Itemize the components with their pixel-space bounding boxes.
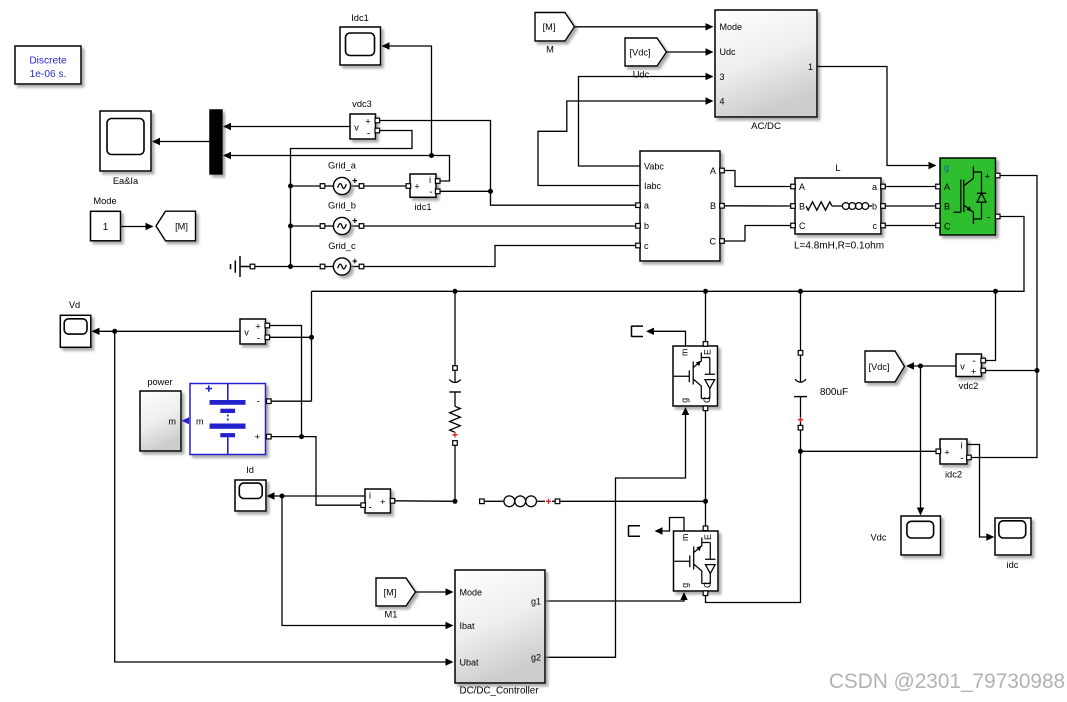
svg-text:800uF: 800uF — [820, 387, 848, 398]
svg-text:v: v — [244, 328, 249, 338]
svg-text:m: m — [168, 417, 176, 427]
svg-text:Ubat: Ubat — [460, 657, 480, 667]
svg-text:E: E — [703, 534, 713, 540]
svg-text:idc: idc — [1007, 560, 1019, 570]
svg-text:Grid_b: Grid_b — [328, 201, 356, 211]
svg-text:v: v — [960, 362, 965, 372]
svg-text:[M]: [M] — [543, 22, 556, 32]
svg-text:3: 3 — [720, 72, 725, 82]
svg-text:Mode: Mode — [460, 587, 483, 597]
svg-text:-: - — [429, 187, 432, 198]
svg-text:-: - — [369, 503, 372, 514]
svg-text:B: B — [710, 201, 716, 211]
svg-text:g1: g1 — [531, 596, 541, 606]
svg-text:[Vdc]: [Vdc] — [869, 362, 890, 372]
svg-text:-: - — [257, 397, 260, 408]
svg-text:vdc2: vdc2 — [959, 381, 979, 391]
svg-text:idc2: idc2 — [945, 470, 962, 480]
svg-text:Vabc: Vabc — [644, 162, 664, 172]
svg-text:b: b — [872, 202, 877, 212]
svg-text:AC/DC: AC/DC — [751, 121, 781, 132]
svg-text:-: - — [257, 334, 260, 345]
svg-text:+: + — [255, 322, 261, 333]
svg-text:A: A — [944, 182, 950, 192]
svg-text:Vd: Vd — [69, 300, 80, 310]
svg-text:E: E — [703, 349, 713, 355]
svg-text:C: C — [710, 237, 717, 247]
svg-text:Mode: Mode — [93, 196, 116, 206]
svg-text:g: g — [944, 163, 949, 173]
svg-text:+: + — [380, 497, 386, 508]
svg-text:Mode: Mode — [720, 22, 743, 32]
svg-text:+: + — [254, 432, 260, 443]
svg-text:Id: Id — [246, 465, 254, 475]
svg-text:Idc1: Idc1 — [351, 13, 369, 23]
svg-text:C: C — [944, 222, 951, 232]
svg-text:vdc3: vdc3 — [352, 99, 372, 109]
svg-text:B: B — [799, 202, 805, 212]
svg-text:DC/DC_Controller: DC/DC_Controller — [460, 686, 540, 697]
svg-text:Udc: Udc — [633, 70, 650, 80]
svg-text:L: L — [835, 163, 840, 173]
svg-text:[M]: [M] — [384, 587, 397, 597]
svg-text:Discrete: Discrete — [29, 56, 67, 67]
svg-text:power: power — [147, 377, 172, 387]
svg-text:Vdc: Vdc — [870, 533, 886, 543]
svg-text:A: A — [710, 166, 716, 176]
svg-text:m: m — [680, 349, 690, 356]
svg-text:Ibat: Ibat — [460, 621, 476, 631]
svg-text:i: i — [429, 175, 431, 185]
svg-text:m: m — [680, 534, 690, 541]
svg-text:L=4.8mH,R=0.1ohm: L=4.8mH,R=0.1ohm — [794, 241, 884, 252]
svg-text:b: b — [644, 221, 649, 231]
svg-text:C: C — [799, 221, 806, 231]
svg-text:c: c — [644, 241, 649, 251]
svg-text:i: i — [369, 491, 371, 501]
svg-text:1: 1 — [103, 222, 109, 233]
svg-text:[M]: [M] — [175, 221, 188, 231]
svg-text:v: v — [354, 123, 359, 133]
svg-text:a: a — [644, 201, 649, 211]
svg-text:+: + — [971, 367, 977, 378]
svg-text:idc1: idc1 — [414, 202, 431, 212]
svg-text:-: - — [987, 213, 990, 224]
svg-text:+: + — [984, 172, 990, 183]
svg-text:1e-06 s.: 1e-06 s. — [30, 69, 67, 80]
svg-text:Udc: Udc — [720, 47, 737, 57]
svg-text:A: A — [799, 182, 805, 192]
svg-text:C: C — [702, 396, 712, 403]
svg-text:Ea&Ia: Ea&Ia — [113, 176, 139, 186]
svg-text:Grid_c: Grid_c — [328, 241, 356, 251]
svg-text:+: + — [414, 182, 420, 193]
svg-text:m: m — [196, 417, 204, 427]
svg-text:M1: M1 — [385, 610, 398, 620]
svg-text:a: a — [872, 182, 877, 192]
svg-text:+: + — [365, 117, 371, 128]
svg-text:B: B — [944, 202, 950, 212]
svg-text:c: c — [873, 221, 878, 231]
svg-text:g: g — [680, 398, 690, 403]
svg-text:[Vdc]: [Vdc] — [630, 47, 651, 57]
svg-text:4: 4 — [720, 97, 725, 107]
svg-text:-: - — [367, 129, 370, 140]
svg-text:i: i — [960, 441, 962, 451]
svg-text:M: M — [546, 45, 554, 55]
svg-text:+: + — [944, 448, 950, 459]
svg-text:C: C — [703, 581, 713, 588]
svg-text:CSDN @2301_79730988: CSDN @2301_79730988 — [829, 670, 1065, 693]
svg-text:-: - — [960, 454, 963, 465]
svg-text:g2: g2 — [531, 653, 541, 663]
svg-text:1: 1 — [808, 62, 813, 72]
svg-text:Iabc: Iabc — [644, 181, 662, 191]
svg-text:Grid_a: Grid_a — [328, 161, 357, 171]
svg-text:g: g — [680, 583, 690, 588]
svg-text:-: - — [972, 356, 975, 367]
